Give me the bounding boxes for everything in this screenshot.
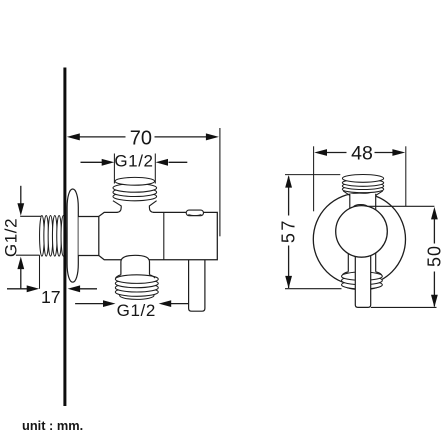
svg-text:G1/2: G1/2	[117, 301, 156, 320]
lever cap capsule on body top	[186, 210, 203, 216]
handle cylinder (below body)	[189, 259, 205, 311]
top stub chamfer	[343, 191, 383, 196]
top stub threads (front)	[342, 175, 383, 193]
svg-text:G1/2: G1/2	[1, 218, 20, 257]
body internal joint line	[163, 212, 165, 259]
top port neck	[118, 211, 154, 214]
stem sliver at hub top	[354, 205, 368, 207]
bottom stub neck	[348, 252, 375, 272]
bottom port threads	[115, 275, 158, 300]
svg-text:G1/2: G1/2	[114, 152, 153, 171]
svg-text:70: 70	[130, 128, 152, 150]
svg-text:unit : mm.: unit : mm.	[22, 418, 83, 433]
svg-text:17: 17	[41, 287, 61, 307]
dimension G1/2 (top port): arrows + extension lines	[81, 154, 188, 184]
svg-text:48: 48	[351, 143, 373, 165]
top port threads	[113, 177, 157, 200]
bottom port dome boss	[121, 255, 150, 274]
inlet pipe threads (left of wall)	[40, 216, 66, 257]
dimension G1/2 (bottom port)	[75, 300, 188, 307]
bottom port flare curls	[116, 275, 155, 278]
dimension 70: line, arrows, extension	[67, 128, 220, 236]
handle hub circle	[336, 206, 388, 258]
dimension G1/2 (inlet, vertical at left)	[16, 186, 41, 289]
handle cylinder (front, downward)	[355, 253, 370, 307]
wall flange (escutcheon, side view ellipse)	[67, 189, 78, 282]
dimension 50	[368, 206, 438, 307]
svg-text:50: 50	[424, 245, 444, 267]
dimension 48	[314, 146, 406, 211]
inlet neck between flange and body	[79, 217, 100, 256]
bottom stub flare curls	[342, 272, 381, 275]
valve body front circle	[313, 193, 405, 285]
bottom stub threads (front)	[342, 272, 383, 290]
valve body (side view)	[99, 212, 218, 259]
wall line	[63, 68, 66, 407]
dimension 17	[7, 285, 97, 292]
dimension 57	[285, 175, 342, 289]
svg-text:57: 57	[279, 218, 299, 243]
top stub neck	[350, 194, 376, 211]
